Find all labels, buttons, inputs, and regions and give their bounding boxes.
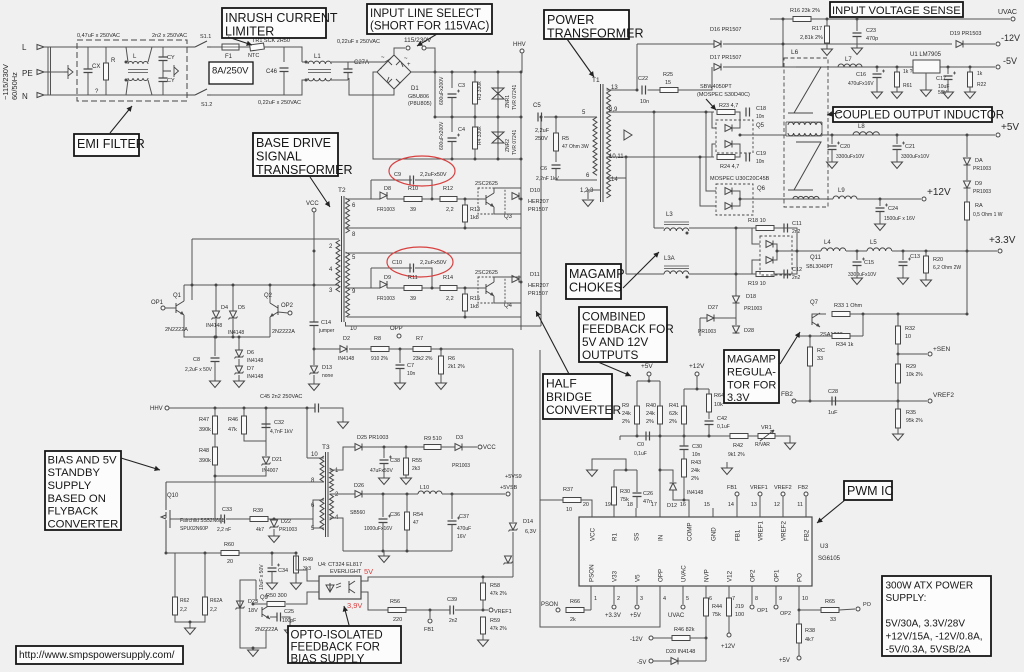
svg-text:R19 10: R19 10 [748,281,766,287]
svg-text:STANDBY: STANDBY [48,467,101,479]
svg-text:R7: R7 [416,336,423,342]
svg-text:-12V: -12V [630,637,643,643]
junction [966,134,969,137]
svg-text:CONVERTER: CONVERTER [48,518,119,530]
svg-text:390k: 390k [199,427,211,433]
pin 2 V33 [613,586,615,598]
svg-text:RC: RC [817,348,825,354]
svg-text:D26: D26 [354,483,364,489]
wire [947,80,949,93]
capacitor C7 [396,365,405,369]
svg-text:3,9V: 3,9V [347,601,362,610]
resistor R18 [756,226,774,231]
arrow bias supply [121,458,160,470]
svg-text:D16 PR1507: D16 PR1507 [710,27,742,33]
resistor R43 [682,459,687,477]
svg-text:VREF1: VREF1 [750,485,768,491]
wire [494,188,521,193]
junction [798,609,801,612]
svg-text:L9: L9 [838,188,845,194]
svg-text:600uFx200V: 600uFx200V [439,76,445,105]
svg-text:10n: 10n [756,159,765,165]
svg-text:910 2%: 910 2% [371,356,389,362]
resistor R34 [832,334,850,339]
wire [726,462,728,468]
wire [689,273,756,275]
terminal [695,372,699,376]
wire [752,260,760,274]
wire [798,598,800,610]
svg-text:INPUT VOLTAGE SENSE: INPUT VOLTAGE SENSE [832,5,961,17]
phase dot [125,61,128,64]
wire [839,609,855,610]
wire pin 8,9 row [607,111,715,113]
wire [728,616,730,633]
chassis ground PE [64,65,73,79]
pin 1 PSON [590,586,592,598]
wire [809,336,811,347]
terminal VREF2 top [781,492,785,496]
wire [683,477,685,490]
wire [700,317,707,319]
wire [862,314,864,336]
svg-text:L3A: L3A [664,256,675,262]
arrow magamp regulator [780,332,800,364]
capacitor C27A [344,69,353,73]
junction [252,603,255,606]
svg-text:R40: R40 [646,403,656,409]
svg-text:47k 2%: 47k 2% [490,591,507,597]
pin 6 NVP [705,586,707,598]
svg-text:U1 LM7905: U1 LM7905 [910,52,942,58]
resistor R7 [413,347,431,352]
svg-text:BIAS AND 5V: BIAS AND 5V [48,454,118,466]
capacitor C22 [642,86,646,95]
svg-text:C33: C33 [222,507,232,513]
junction [382,493,385,496]
resistor R11 [404,286,422,291]
arrow [706,99,716,110]
diode Q5a [725,125,732,132]
capacitor C10 [410,264,414,273]
resistor R10 [404,197,422,202]
junction [862,313,865,316]
svg-text:1000uFx16V: 1000uFx16V [364,526,393,532]
wire [494,277,521,282]
wire [346,198,372,200]
svg-text:C45 2n2 250VAC: C45 2n2 250VAC [260,394,302,400]
wire [613,505,615,508]
wire [440,349,442,356]
wire [653,637,672,639]
wire [214,362,216,382]
wire [879,199,881,206]
wire IN column [659,436,661,508]
svg-text:R58: R58 [490,583,500,589]
svg-text:75k: 75k [712,612,721,618]
wire to T1 pin6 [556,169,590,181]
wire [238,375,240,381]
wire [255,580,257,601]
svg-text:L10: L10 [420,485,429,491]
svg-text:2SC2625: 2SC2625 [475,181,498,187]
svg-text:F1: F1 [225,54,233,60]
svg-text:TVR 07241: TVR 07241 [512,129,518,155]
svg-text:115/230V: 115/230V [404,37,432,44]
diode Q11a [766,241,773,248]
svg-text:R30: R30 [620,489,630,495]
svg-text:OP2: OP2 [281,303,294,309]
wire [457,198,478,200]
svg-text:2,2uF: 2,2uF [535,128,550,134]
wire Q10 gate [170,518,215,520]
junction [520,158,523,161]
wire [215,466,266,476]
ground C7 [395,383,406,390]
ground mid [722,468,733,475]
callout MAGAMP CHOKES [566,264,621,299]
svg-text:PR1003: PR1003 [973,189,991,195]
junction [683,499,686,502]
svg-text:D17 PR1507: D17 PR1507 [710,55,742,61]
wire 5V feedback rail [361,577,513,581]
wire [371,287,380,289]
svg-text:6: 6 [709,596,712,602]
pin 11 FB2 [805,508,807,517]
svg-text:L6: L6 [791,49,799,56]
wire [232,285,234,311]
ground C24 [875,224,886,231]
terminal +12V [922,197,926,201]
wire HV+ rail [435,71,521,73]
transistor Q7 [812,313,820,327]
junction [482,576,485,579]
wire [539,350,541,395]
svg-text:GBU806: GBU806 [408,94,429,100]
wire [683,477,685,500]
svg-text:PR1003: PR1003 [698,329,716,335]
svg-text:+5V: +5V [630,613,641,619]
capacitor C34 [268,568,277,572]
wire 3.9V [361,592,388,610]
svg-text:R33 1 Ohm: R33 1 Ohm [834,303,863,309]
wire source row [166,552,296,554]
wire [831,150,833,163]
capacitor CY1 [159,57,168,61]
wire [969,87,971,92]
svg-text:19: 19 [605,502,611,508]
ground C20 [827,162,838,169]
svg-text:R25: R25 [663,72,673,78]
svg-text:-: - [380,66,382,72]
wire [497,117,499,131]
resistor R62 [173,597,178,615]
diode D2 [340,346,347,353]
svg-text:PR1003: PR1003 [973,166,991,172]
ground C38 [379,478,390,485]
svg-text:FB2: FB2 [804,529,811,541]
svg-text:D22: D22 [281,519,291,525]
wire [653,660,671,662]
capacitor C5 [538,113,542,122]
resistor R12 [440,197,457,202]
ground D22 [269,536,280,543]
resistor R62A [203,597,208,615]
junction [739,198,742,201]
wire [966,220,968,251]
phase dot L3A [686,276,689,279]
wire [273,529,275,536]
capacitor CX [84,69,93,73]
wire [87,73,89,96]
capacitor C12 [784,270,788,279]
wire [690,637,706,639]
svg-text:C6: C6 [540,166,547,172]
wire [265,408,267,418]
wire [896,87,898,92]
svg-text:S1.1: S1.1 [200,34,211,40]
T2 winding 5-9-10 [346,252,350,317]
svg-text:R23 4,7: R23 4,7 [719,103,738,109]
svg-text:L3: L3 [666,212,673,218]
svg-text:Q1: Q1 [173,293,182,299]
svg-text:2N2222A: 2N2222A [165,327,188,333]
svg-text:PR1507: PR1507 [528,207,548,213]
ground C23 [852,48,863,55]
arrow input line select [417,34,437,46]
terminal [312,208,316,212]
wire [876,78,878,93]
callout EMI FILTER [74,134,139,156]
junction [431,198,434,201]
svg-text:+12V: +12V [721,644,735,650]
wire [700,157,716,206]
svg-text:95k 2%: 95k 2% [906,418,923,424]
wire [969,67,971,72]
junction [782,18,785,21]
junction [383,446,386,449]
wire [856,37,858,49]
wire pin 14 [607,177,627,179]
svg-text:L1: L1 [314,54,321,60]
wire [966,135,968,157]
resistor R15 [463,294,468,311]
capacitor C33 [221,515,225,524]
capacitor C25 [277,613,281,622]
svg-text:FB2: FB2 [781,391,793,398]
svg-text:PR1507: PR1507 [528,291,548,297]
wire [286,592,319,604]
wire [362,493,418,495]
wire [805,496,807,508]
svg-text:39: 39 [410,207,416,213]
svg-text:SUPPLY: SUPPLY [48,480,92,492]
svg-text:250V: 250V [535,136,548,142]
inductor L9 [833,196,857,199]
svg-text:IN: IN [658,535,665,541]
rectifier Q6 dashed box [716,184,753,215]
svg-text:100pF: 100pF [282,618,296,624]
wire [896,150,898,163]
wire to T1 pin5 [544,116,590,118]
wire [751,598,753,604]
wire [307,457,324,459]
wire -5V rail [838,66,995,68]
svg-text:10: 10 [350,326,357,332]
terminal [397,334,401,338]
svg-text:L8: L8 [858,124,865,130]
wire [732,191,740,206]
diode D13 [310,366,319,375]
wire +3.3V rail [892,250,997,252]
svg-text:R16 23k 2%: R16 23k 2% [790,8,820,14]
wire [826,19,828,26]
wire to D14 [512,349,514,522]
ground R22 [965,92,976,99]
wire [474,72,476,82]
wire [240,580,256,592]
terminal FB2 top [804,492,808,496]
svg-text:0,22uF x 250VAC: 0,22uF x 250VAC [337,39,380,45]
resistor R4 [473,127,478,149]
phase dot [305,61,308,64]
junction [520,281,523,284]
wire [371,198,380,200]
resistor R61 [895,72,900,87]
wire [429,610,431,618]
pin 15 GND [712,508,714,517]
junction [497,71,500,74]
pin 8 OP2 [751,586,753,598]
wire comp row [620,435,730,437]
svg-text:+12V: +12V [689,363,705,370]
svg-text:470uF: 470uF [457,526,471,532]
varistor ZNR1 [492,86,504,101]
terminal +12V pin [727,633,731,637]
terminal +5V bottom [797,656,801,660]
junction [265,407,268,410]
wire [774,228,797,274]
svg-text:R54: R54 [413,512,423,518]
wire [925,251,927,256]
svg-text:R64: R64 [714,393,724,399]
resistor R55 [404,458,409,475]
callout INRUSH CURRENT LIMITER [222,8,326,38]
svg-text:UVAC: UVAC [681,565,688,582]
svg-text:IN4148: IN4148 [247,374,263,380]
svg-text:2,2uF x 50V: 2,2uF x 50V [185,367,213,373]
pin 5 UVAC [682,586,684,598]
wire [383,464,385,479]
wire [264,46,302,48]
svg-text:9k1 2%: 9k1 2% [728,452,745,458]
svg-text:MAGAMP: MAGAMP [727,354,776,366]
wire [474,149,476,159]
wire bridge + [411,71,435,73]
svg-text:D8: D8 [384,186,391,192]
wire pin1 [590,598,592,610]
svg-text:L5: L5 [870,240,877,246]
capacitor C20 [828,146,837,150]
svg-text:D21: D21 [272,457,282,463]
svg-text:47n: 47n [643,499,652,505]
wire T2 pin2 [192,238,339,240]
wire [215,285,217,311]
svg-text:3300uFx10V: 3300uFx10V [836,154,865,160]
wire [119,80,128,95]
svg-text:IN4148: IN4148 [206,323,222,329]
wire [302,61,308,63]
resistor R66 [566,608,584,613]
capacitor C8 [211,358,220,362]
svg-text:TRANSFORMER: TRANSFORMER [256,163,353,177]
wire [457,287,478,289]
svg-text:C5: C5 [533,103,541,109]
svg-text:CX: CX [92,64,100,70]
wire [478,287,486,289]
wire [735,303,737,325]
terminal N [37,93,44,98]
T3 secondary winding 1 [330,468,334,492]
wire VCC [313,212,315,322]
junction [659,435,662,438]
inductor L4 [821,248,846,251]
svg-text:9: 9 [779,596,782,602]
pin 10 PO [798,586,800,598]
junction [705,637,708,640]
wire [462,446,477,448]
wire to L6 [757,134,786,136]
junction [636,435,639,438]
wire [705,616,707,661]
svg-text:C17: C17 [936,76,946,82]
transistor Q4 dashed box [478,277,505,303]
wire UVAC rail [811,18,1010,20]
diode D25 [355,444,362,451]
wire [464,288,466,294]
zener D6 [235,350,244,359]
junction [831,134,834,137]
wire [678,67,712,90]
wire [441,446,455,448]
wire to L3 [653,112,655,228]
wire [708,412,710,419]
svg-text:D25 PR1003: D25 PR1003 [357,435,389,441]
terminal [165,406,169,410]
junction [295,552,298,555]
svg-text:R8: R8 [374,336,381,342]
wire T1 123 [588,190,600,199]
resistor R3 [473,82,478,104]
svg-text:1: 1 [594,596,597,602]
svg-text:4k7: 4k7 [256,527,264,533]
svg-text:1uF: 1uF [828,410,838,416]
svg-text:(P8U805): (P8U805) [408,101,432,107]
svg-text:C36: C36 [390,512,400,518]
zener D15 [504,556,513,565]
svg-text:1500uF x 16V: 1500uF x 16V [884,216,916,222]
svg-text:D3: D3 [456,435,463,441]
svg-text:+5V: +5V [779,658,790,664]
svg-text:REGULA-: REGULA- [727,367,776,379]
wire [696,376,698,389]
ground R20 [921,280,932,287]
wire [678,660,706,662]
svg-text:C42: C42 [717,416,727,422]
wire to T3 pin10 [306,408,308,458]
svg-text:C28: C28 [828,389,838,395]
junction [520,198,523,201]
